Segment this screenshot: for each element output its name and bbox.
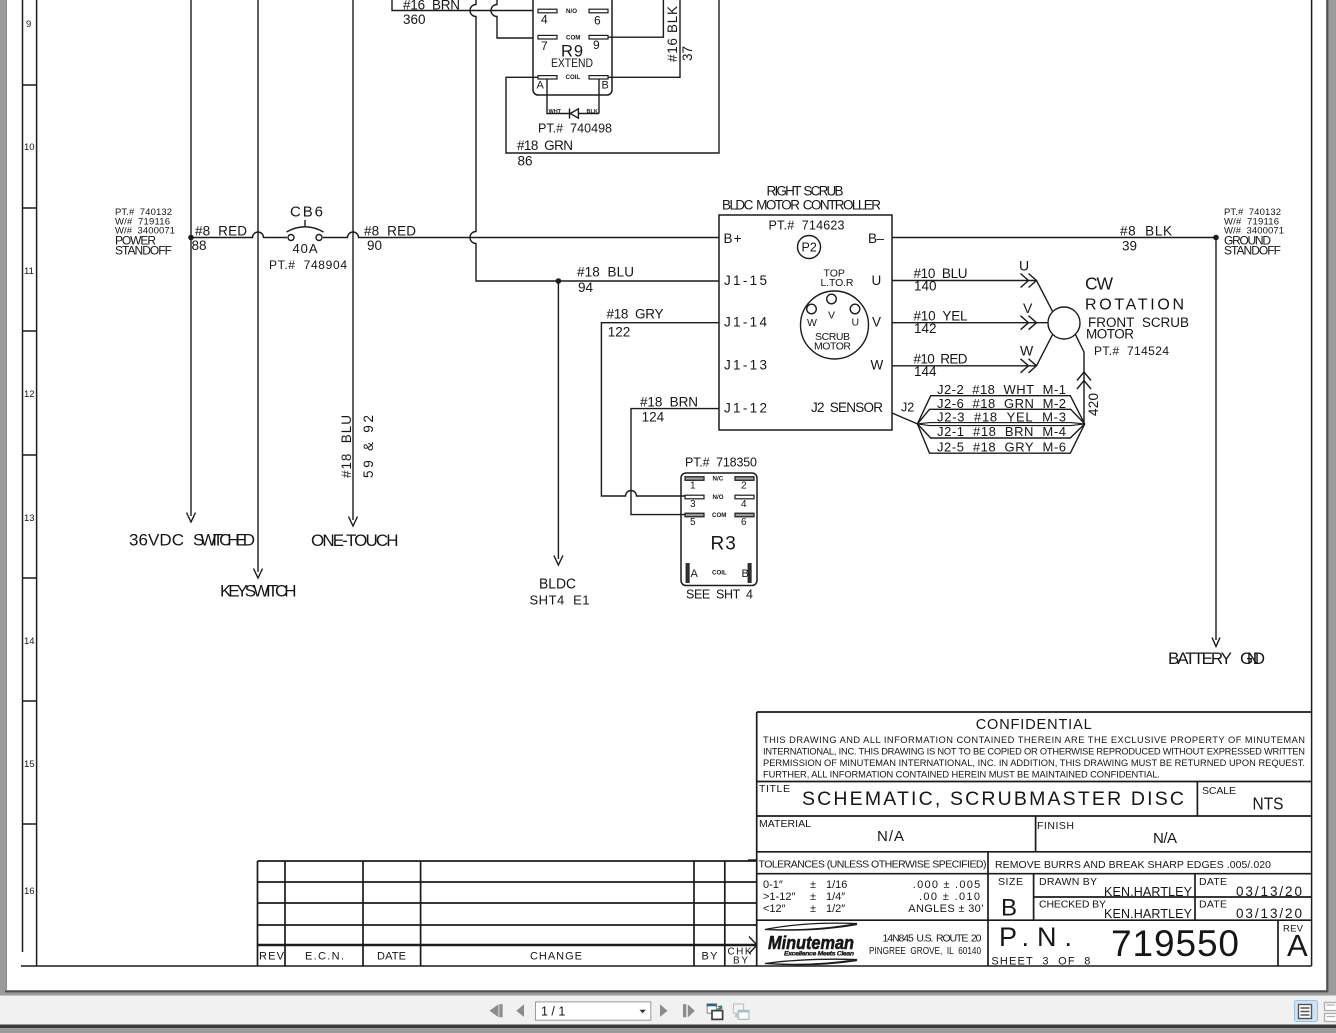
svg-text:COM: COM [566, 35, 580, 42]
wire V #10 YEL 142 [892, 322, 1048, 324]
svg-text:U: U [852, 317, 860, 329]
svg-text:N/A: N/A [877, 828, 904, 845]
svg-text:KEN.HARTLEY: KEN.HARTLEY [1104, 907, 1193, 921]
svg-text:DATE: DATE [1199, 876, 1227, 888]
svg-text:A: A [537, 80, 545, 92]
svg-text:122: 122 [608, 325, 631, 340]
svg-text:COM: COM [712, 512, 726, 519]
svg-text:STANDOFF: STANDOFF [1224, 244, 1281, 258]
svg-text:COIL: COIL [566, 74, 581, 81]
svg-text:B–: B– [868, 231, 884, 246]
svg-text:CONFIDENTIAL: CONFIDENTIAL [976, 717, 1092, 733]
svg-text:B: B [1001, 895, 1017, 922]
svg-text:14N845 U.S. ROUTE 20: 14N845 U.S. ROUTE 20 [883, 933, 982, 945]
next view button (disabled) [733, 1004, 749, 1019]
wire B- #8 BLK 39 [892, 237, 1216, 239]
arrow 36VDC [187, 513, 196, 523]
svg-text:719550: 719550 [1111, 923, 1239, 964]
svg-text:4: 4 [741, 499, 747, 510]
svg-text:W: W [807, 317, 817, 329]
svg-text:N/C: N/C [713, 475, 724, 482]
svg-text:J2-3 #18 YEL M-3: J2-3 #18 YEL M-3 [937, 410, 1066, 425]
svg-text:1/2″: 1/2″ [826, 903, 845, 915]
toolbar background [0, 996, 1336, 1025]
svg-text:CHECKED BY: CHECKED BY [1039, 899, 1106, 911]
breaker CB6 [288, 235, 294, 241]
svg-text:140: 140 [914, 279, 937, 294]
next page button [660, 1004, 668, 1017]
wire W #10 RED 144 [892, 334, 1053, 366]
wire #8 RED 90 to B+ [323, 232, 719, 237]
page number box [536, 1002, 651, 1020]
svg-text:J2-6 #18 GRN M-2: J2-6 #18 GRN M-2 [937, 396, 1066, 411]
harness labels [937, 382, 1066, 454]
svg-text:RIGHT SCRUB: RIGHT SCRUB [767, 184, 844, 199]
frame bottom [21, 965, 1312, 967]
svg-text:1 / 1: 1 / 1 [541, 1005, 565, 1019]
single page view button (selected) [1295, 1001, 1318, 1022]
svg-text:CW: CW [1085, 274, 1113, 294]
svg-text:ONE-TOUCH: ONE-TOUCH [311, 531, 399, 550]
svg-text:3: 3 [690, 499, 696, 510]
svg-text:J2: J2 [901, 401, 914, 415]
svg-text:<12″: <12″ [763, 903, 786, 915]
border number strip [22, 0, 24, 952]
pin 2 [735, 477, 754, 481]
svg-text:10: 10 [24, 142, 35, 153]
svg-text:J1-14: J1-14 [724, 315, 767, 330]
svg-text:88: 88 [192, 238, 207, 253]
svg-text:U: U [872, 273, 882, 288]
svg-text:STANDOFF: STANDOFF [115, 244, 172, 258]
svg-text:SHT4 E1: SHT4 E1 [530, 593, 590, 608]
svg-text:.000 ± .005: .000 ± .005 [913, 879, 980, 891]
controller box [719, 215, 892, 430]
svg-text:86: 86 [518, 154, 533, 169]
svg-text:SIZE: SIZE [998, 876, 1023, 888]
frame right [1311, 0, 1313, 966]
svg-text:V: V [828, 310, 835, 322]
svg-text:7: 7 [541, 39, 548, 53]
wire #16 BRN 360 to R9 pin 4 [392, 0, 533, 11]
wire R9 pin 9 up [608, 0, 663, 37]
R9 labels [541, 13, 601, 54]
svg-text:PT.# 748904: PT.# 748904 [269, 258, 347, 272]
svg-text:BY: BY [733, 956, 748, 967]
wire #18 BLU 94 vertical with hops to J1-15 [470, 0, 719, 281]
first page button [490, 1004, 499, 1017]
motor M circle [1048, 307, 1080, 339]
wire J2 diagonal [892, 413, 917, 424]
wire #16 BLK 37 coil B [608, 0, 680, 77]
svg-text:#8 RED: #8 RED [195, 224, 247, 239]
svg-text:#16 BRN: #16 BRN [403, 0, 460, 13]
relay R9 [533, 0, 612, 95]
J2 harness bundle [917, 396, 1084, 424]
svg-text:#18 BLU: #18 BLU [339, 415, 354, 478]
svg-text:#16 BLK: #16 BLK [665, 6, 680, 62]
pin 7 [538, 35, 557, 39]
svg-text:±: ± [810, 903, 816, 915]
wire #18 GRN 86 coil A loop [506, 0, 719, 153]
connector P2 circle [798, 236, 821, 259]
motor labels [1019, 258, 1034, 359]
svg-text:WHT: WHT [549, 109, 562, 115]
svg-text:MOTOR: MOTOR [814, 341, 851, 353]
last page button [683, 1004, 686, 1017]
svg-text:V: V [872, 315, 881, 330]
svg-text:J1-12: J1-12 [724, 401, 767, 416]
svg-text:PT.# 714623: PT.# 714623 [769, 219, 845, 233]
svg-text:N/A: N/A [1153, 830, 1177, 847]
svg-text:11: 11 [24, 266, 34, 277]
svg-text:360: 360 [403, 12, 426, 27]
svg-text:INTERNATIONAL, INC. THIS DRAWI: INTERNATIONAL, INC. THIS DRAWING IS NOT … [763, 747, 1305, 757]
svg-text:BATTERY: BATTERY [1168, 649, 1232, 668]
pin 6 [735, 513, 754, 517]
svg-text:>1-12″: >1-12″ [763, 891, 795, 903]
wire BLDC drop [557, 281, 559, 559]
svg-text:4: 4 [541, 13, 548, 27]
svg-text:#8 RED: #8 RED [364, 224, 416, 239]
svg-text:BLDC: BLDC [539, 577, 576, 593]
svg-text:J2 SENSOR: J2 SENSOR [811, 400, 883, 415]
svg-text:6: 6 [594, 14, 601, 28]
svg-text:0-1″: 0-1″ [763, 879, 783, 891]
svg-text:B: B [602, 80, 609, 92]
svg-text:03/13/20: 03/13/20 [1236, 906, 1302, 921]
pin 1 [685, 477, 704, 481]
svg-text:EXTEND: EXTEND [551, 56, 593, 70]
svg-text:15: 15 [24, 759, 35, 770]
svg-text:9: 9 [26, 19, 31, 30]
continuous view button (cut) [1325, 1003, 1336, 1022]
pin A [538, 76, 557, 79]
wire #18 BRN 124 [631, 409, 719, 515]
svg-text:PINGREE GROVE, IL 60140: PINGREE GROVE, IL 60140 [869, 945, 981, 957]
pin 3 [685, 495, 704, 499]
svg-text:ANGLES ± 30’: ANGLES ± 30’ [908, 903, 983, 915]
wire to R9 pin 7 [491, 0, 533, 38]
svg-text:Excellence Meets Clean: Excellence Meets Clean [784, 951, 854, 958]
svg-text:R3: R3 [711, 534, 737, 555]
svg-text:U: U [1019, 258, 1029, 274]
svg-text:PT.# 718350: PT.# 718350 [685, 456, 757, 470]
svg-text:J2-2 #18 WHT M-1: J2-2 #18 WHT M-1 [937, 382, 1066, 397]
svg-text:90: 90 [367, 238, 382, 253]
scrub motor pictogram [801, 291, 869, 359]
diode PT.# 740498 [547, 79, 599, 114]
previous view button [707, 1004, 723, 1020]
svg-text:FINISH: FINISH [1037, 820, 1074, 832]
svg-text:B: B [742, 568, 749, 580]
svg-text:W: W [1020, 343, 1034, 359]
svg-text:37: 37 [680, 46, 695, 61]
svg-text:144: 144 [914, 364, 937, 379]
svg-text:DATE: DATE [377, 951, 406, 963]
svg-text:1/16: 1/16 [826, 879, 847, 891]
svg-text:#18 GRY: #18 GRY [607, 307, 664, 322]
wire 36VDC switched vertical [190, 0, 192, 516]
svg-text:PT.# 740498: PT.# 740498 [538, 122, 612, 136]
svg-text:V: V [1023, 300, 1033, 316]
svg-text:SWITCHED: SWITCHED [193, 531, 255, 550]
svg-text:CHANGE: CHANGE [530, 951, 582, 963]
svg-text:SHEET 3 OF 8: SHEET 3 OF 8 [991, 956, 1090, 968]
svg-text:E.C.N.: E.C.N. [305, 951, 344, 963]
relay R3 [681, 473, 757, 586]
svg-text:A: A [1287, 928, 1308, 963]
svg-text:14: 14 [24, 636, 35, 647]
svg-text:P2: P2 [802, 241, 817, 255]
pin 6 [589, 9, 608, 13]
svg-text:MATERIAL: MATERIAL [759, 818, 811, 830]
svg-text:KEYSWITCH: KEYSWITCH [220, 582, 297, 601]
svg-text:GND: GND [1240, 649, 1265, 668]
coil pin B [748, 564, 751, 583]
svg-text:SCALE: SCALE [1202, 785, 1236, 797]
svg-text:94: 94 [578, 280, 594, 295]
arrow BLDC [554, 556, 563, 566]
svg-text:THIS DRAWING AND ALL INFORMATI: THIS DRAWING AND ALL INFORMATION CONTAIN… [763, 735, 1305, 745]
svg-text:#18 BLU: #18 BLU [577, 265, 634, 280]
wire battery gnd vertical [1215, 238, 1217, 641]
big destination labels [129, 531, 1265, 669]
wire one-touch vertical [352, 0, 354, 520]
node ground standoff junction [1213, 235, 1219, 241]
pin 9 [589, 35, 608, 39]
svg-text:BLDC MOTOR CONTROLLER: BLDC MOTOR CONTROLLER [722, 198, 881, 213]
svg-text:DRAWN BY: DRAWN BY [1039, 876, 1097, 888]
svg-text:1: 1 [690, 481, 696, 492]
svg-text:6: 6 [741, 517, 747, 528]
svg-text:PT.# 714524: PT.# 714524 [1094, 344, 1169, 358]
svg-text:#18 BRN: #18 BRN [640, 395, 698, 410]
prev page button [516, 1004, 524, 1017]
svg-text:DATE: DATE [1199, 899, 1227, 911]
coil pin A [686, 564, 689, 583]
svg-text:FURTHER, ALL INFORMATION CONTA: FURTHER, ALL INFORMATION CONTAINED HEREI… [763, 770, 1160, 780]
svg-text:J1-13: J1-13 [724, 358, 767, 373]
svg-text:NTS: NTS [1253, 794, 1284, 814]
frame ticks [748, 859, 757, 861]
wire motor 420 [1075, 334, 1084, 423]
node power standoff junction [188, 235, 194, 241]
arrow keyswitch [254, 569, 263, 579]
svg-text:5: 5 [690, 517, 696, 528]
svg-text:COIL: COIL [712, 570, 727, 577]
standoff labels [115, 207, 1284, 237]
svg-text:39: 39 [1122, 239, 1137, 254]
svg-text:N/O: N/O [713, 494, 724, 501]
wire #8 RED 88 [191, 232, 287, 237]
svg-text:REMOVE BURRS AND BREAK SHARP E: REMOVE BURRS AND BREAK SHARP EDGES .005/… [995, 859, 1271, 871]
minuteman logo [765, 923, 857, 930]
svg-text:142: 142 [914, 321, 937, 336]
svg-text:W: W [871, 358, 884, 373]
pin B [589, 76, 608, 79]
pin 4 [735, 495, 754, 499]
svg-text:J2-1 #18 BRN M-4: J2-1 #18 BRN M-4 [937, 424, 1066, 439]
title block borders [757, 712, 1312, 966]
svg-text:J1-15: J1-15 [724, 273, 767, 288]
svg-text:36VDC: 36VDC [129, 531, 184, 550]
arrow battery gnd [1212, 638, 1220, 647]
wire #18 GRY 122 [601, 323, 719, 496]
svg-text:L.TO.R: L.TO.R [821, 277, 854, 289]
svg-text:±: ± [810, 891, 816, 903]
svg-text:PERMISSION OF MINUTEMAN INTERN: PERMISSION OF MINUTEMAN INTERNATIONAL, I… [763, 758, 1305, 768]
node BLDC junction [556, 278, 562, 284]
svg-text:13: 13 [24, 513, 35, 524]
pin 5 [685, 513, 704, 517]
arrow one-touch [349, 517, 358, 527]
svg-text:2: 2 [741, 481, 747, 492]
svg-text:ROTATION: ROTATION [1085, 297, 1184, 314]
svg-text:REV: REV [259, 951, 285, 963]
svg-text:1/4″: 1/4″ [826, 891, 845, 903]
svg-text:CB6: CB6 [290, 204, 323, 221]
svg-text:TITLE: TITLE [759, 783, 790, 795]
svg-text:420: 420 [1086, 393, 1101, 416]
svg-text:40A: 40A [293, 241, 318, 256]
svg-text:SCHEMATIC, SCRUBMASTER DISC: SCHEMATIC, SCRUBMASTER DISC [802, 788, 1184, 810]
svg-text:16: 16 [24, 886, 35, 897]
svg-text:SEE SHT 4: SEE SHT 4 [686, 588, 753, 602]
svg-text:124: 124 [642, 410, 665, 425]
svg-text:KEN.HARTLEY: KEN.HARTLEY [1104, 885, 1193, 899]
svg-text:J2-5 #18 GRY M-6: J2-5 #18 GRY M-6 [937, 439, 1066, 454]
pin 4 [538, 9, 557, 13]
svg-text:#8 BLK: #8 BLK [1120, 224, 1172, 239]
svg-text:TOLERANCES (UNLESS OTHERWISE S: TOLERANCES (UNLESS OTHERWISE SPECIFIED) [759, 859, 987, 871]
wire U #10 BLU 140 [892, 281, 1053, 312]
svg-text:MOTOR: MOTOR [1086, 327, 1134, 342]
revision table grid [258, 861, 757, 925]
svg-text:A: A [691, 568, 699, 580]
svg-text:BLK: BLK [587, 109, 598, 115]
svg-text:9: 9 [593, 38, 600, 52]
svg-text:N/O: N/O [566, 8, 577, 15]
svg-text:.00 ± .010: .00 ± .010 [919, 891, 980, 903]
svg-text:#18 GRN: #18 GRN [517, 138, 573, 153]
svg-text:±: ± [810, 879, 816, 891]
wire keyswitch vertical [257, 0, 259, 572]
svg-text:BY: BY [702, 951, 719, 963]
svg-text:12: 12 [24, 389, 35, 400]
svg-text:03/13/20: 03/13/20 [1236, 884, 1302, 899]
